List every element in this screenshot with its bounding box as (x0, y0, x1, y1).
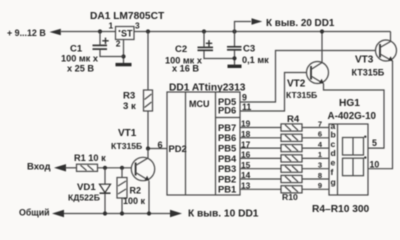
wire PB to R4 (240, 127, 281, 129)
svg-text:1: 1 (318, 150, 322, 159)
resistor R5 (281, 134, 302, 141)
svg-text:3: 3 (135, 21, 140, 31)
pin 6 (318, 130, 322, 139)
HG1 label (339, 98, 360, 109)
resistor R9 (281, 175, 302, 182)
resistor R3 (144, 29, 153, 148)
svg-text:PB1: PB1 (218, 184, 236, 195)
svg-text:0,1 мк: 0,1 мк (242, 55, 269, 65)
node +5V top rail (61, 31, 391, 33)
resistor R6 (281, 145, 302, 152)
wire PD2 pin 6 (146, 146, 167, 150)
capacitor C1 (93, 29, 124, 56)
capacitor C2 (198, 29, 235, 58)
node Vhod label (27, 162, 51, 173)
wire to pin 20 DD1 (235, 22, 252, 32)
svg-text:6: 6 (318, 130, 322, 139)
svg-text:+ 9...12 В: + 9...12 В (7, 28, 46, 38)
VD1 label (68, 182, 100, 203)
wire R8 to HG1 pin 3 (302, 168, 329, 170)
resistor R10 (281, 186, 302, 193)
pin 16 (241, 150, 251, 160)
wire PB to R7 (240, 157, 281, 159)
svg-text:b: b (331, 130, 336, 140)
wire PB to R10 (240, 188, 281, 190)
wire HG1 pin10 to VT3 emitter (368, 61, 393, 169)
resistor R1 (65, 164, 98, 171)
svg-text:Вход: Вход (27, 162, 51, 173)
svg-text:g: g (331, 177, 336, 187)
wire input arrow (50, 29, 61, 36)
wire R5 to HG1 pin 6 (302, 137, 329, 139)
pin 1 (318, 150, 322, 159)
R4 label (287, 114, 300, 125)
svg-text:R4–R10 300: R4–R10 300 (312, 204, 370, 215)
pin 8 (318, 171, 322, 180)
pin 9 (242, 93, 247, 103)
VT2 label (286, 79, 317, 101)
wire PD6 pin11 to VT2 base (240, 73, 311, 112)
svg-text:10: 10 (370, 160, 380, 170)
wire R9 to HG1 pin 8 (302, 178, 329, 180)
svg-text:1: 1 (109, 21, 114, 31)
wire HG1 pin5 to VT2 emitter (324, 84, 385, 149)
svg-text:MCU: MCU (189, 99, 210, 109)
svg-text:КТ315Б: КТ315Б (111, 141, 142, 151)
svg-text:PD2: PD2 (169, 143, 187, 154)
display HG1 body (329, 121, 368, 195)
pin 15 (241, 160, 251, 170)
arrow to pin 20 (252, 18, 263, 24)
svg-text:R10: R10 (282, 192, 298, 202)
svg-text:КТ315Б: КТ315Б (352, 68, 385, 78)
svg-text:Общий: Общий (19, 208, 50, 218)
resistor R8 (281, 165, 302, 172)
node common bottom rail (64, 211, 170, 215)
pin 10 (370, 160, 380, 170)
C2 value label (165, 44, 203, 74)
node +9..12V input label (7, 28, 46, 38)
VT1 label (111, 128, 142, 151)
node Obshchiy label (19, 208, 50, 218)
transistor VT2 (307, 29, 329, 84)
svg-text:9: 9 (318, 181, 322, 190)
svg-text:f: f (331, 167, 334, 177)
ground under C3 (228, 65, 242, 68)
pin 17 (241, 139, 251, 149)
svg-text:R1 10 к: R1 10 к (74, 153, 106, 163)
pin 14 (241, 170, 251, 180)
R1 value label (74, 153, 106, 163)
svg-text:VT3: VT3 (355, 55, 374, 66)
op-amp DD1 label (169, 83, 246, 94)
wire R7 to HG1 pin 1 (302, 157, 329, 159)
VT3 label (352, 55, 385, 78)
wire PB to R5 (240, 137, 281, 139)
R4-R10 value label (312, 204, 370, 215)
svg-text:PD6: PD6 (218, 105, 236, 116)
wire PD5 pin9 to VT3 base (240, 51, 380, 103)
wire common arrow left (52, 210, 64, 217)
wire PB to R9 (240, 178, 281, 180)
wire VT3 collector riser (390, 32, 392, 42)
svg-text:ST: ST (121, 29, 133, 39)
pin 9 (318, 181, 322, 190)
pin 11 (242, 102, 251, 112)
svg-text:VT2: VT2 (287, 79, 306, 90)
wire regulator pin2 down (121, 40, 125, 65)
diode VD1 (100, 168, 111, 214)
svg-text:3: 3 (318, 161, 322, 170)
R10 label (282, 192, 298, 202)
svg-text:100 к: 100 к (123, 196, 146, 206)
resistor R4 (281, 124, 302, 131)
pin 2 (116, 39, 121, 49)
pin 4 (318, 140, 323, 149)
svg-text:C3: C3 (243, 44, 255, 55)
HG1 type label (328, 111, 377, 122)
C3 value label (242, 44, 269, 66)
svg-text:х 25 В: х 25 В (67, 64, 94, 74)
svg-text:2: 2 (116, 39, 121, 49)
C1 value label (61, 44, 99, 74)
svg-text:К выв. 10 DD1: К выв. 10 DD1 (188, 209, 259, 220)
pin 13 (241, 181, 251, 191)
svg-text:R2: R2 (130, 186, 142, 196)
pin 6 (158, 140, 163, 150)
svg-text:х 16 В: х 16 В (172, 64, 199, 74)
wire R10 to HG1 pin 9 (302, 188, 329, 190)
regulator DA1 body (116, 27, 135, 40)
R2 label (123, 186, 146, 207)
pin 7 (318, 119, 322, 128)
svg-text:7: 7 (318, 119, 322, 128)
svg-text:8: 8 (318, 171, 322, 180)
wire R6 to HG1 pin 4 (302, 147, 329, 149)
svg-text:VT1: VT1 (118, 128, 137, 139)
svg-text:3 к: 3 к (123, 101, 136, 112)
node K vyv 20 DD1 label (266, 18, 335, 29)
seven-segment digit 1 (343, 138, 364, 156)
svg-text:9: 9 (242, 93, 247, 103)
transistor VT1 (131, 149, 154, 214)
pin 19 (241, 119, 251, 129)
svg-text:R3: R3 (123, 91, 135, 102)
wire PB to R6 (240, 147, 281, 149)
resistor R7 (281, 155, 302, 162)
svg-text:R4: R4 (287, 114, 300, 125)
svg-text:К выв. 20 DD1: К выв. 20 DD1 (266, 18, 335, 29)
resistor R2 (117, 168, 127, 214)
pin 18 (241, 129, 251, 139)
R3 value label (123, 91, 136, 113)
seven-segment digit 2 (343, 158, 364, 176)
svg-text:5: 5 (372, 138, 377, 148)
svg-text:КД522Б: КД522Б (68, 193, 100, 203)
svg-text:e: e (331, 157, 336, 167)
op-amp DA1 label (90, 11, 165, 22)
pin 1 (109, 21, 114, 31)
arrow to pin 10 DD1 (170, 210, 182, 217)
transistor VT3 (376, 40, 397, 61)
svg-text:100 мк х: 100 мк х (61, 54, 99, 64)
ground under DA1 (116, 63, 132, 66)
capacitor C3 (227, 29, 242, 64)
pin 3 (135, 21, 140, 31)
wire R4 to HG1 pin 7 (302, 127, 329, 129)
op-amp DD1 MCU body (167, 92, 240, 195)
pin 5 (372, 138, 377, 148)
svg-text:DA1 LM7805CT: DA1 LM7805CT (90, 11, 165, 22)
wire input arrow left (54, 164, 66, 171)
wire R1 to VT1 base (98, 166, 136, 170)
svg-text:VD1: VD1 (77, 182, 96, 193)
wire PB to R8 (240, 168, 281, 170)
pin 3 (318, 161, 322, 170)
node K vyv 10 DD1 label (188, 209, 259, 220)
svg-text:C2: C2 (175, 44, 187, 55)
svg-text:HG1: HG1 (339, 98, 360, 109)
svg-text:КТ315Б: КТ315Б (286, 90, 317, 100)
